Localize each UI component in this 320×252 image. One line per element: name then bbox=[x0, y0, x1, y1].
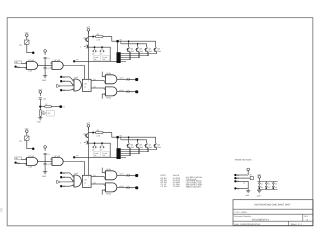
svg-text:TIMING VALUES: TIMING VALUES bbox=[186, 186, 202, 189]
wire U2A output to U3 bbox=[81, 84, 82, 86]
NAND gate UL2A bbox=[74, 175, 81, 187]
svg-text:2N4: 2N4 bbox=[157, 50, 160, 53]
capacitor C5 bbox=[39, 97, 42, 99]
wire from YL1 to node dot bbox=[27, 140, 33, 149]
drawing border frame bbox=[7, 18, 313, 226]
title block row lines bbox=[233, 208, 313, 210]
wire from Y1 to node dot bbox=[27, 44, 33, 53]
power VCC symbol VL2 bbox=[44, 146, 47, 149]
svg-text:IN1: IN1 bbox=[15, 61, 18, 64]
diode DL5 bbox=[92, 146, 94, 148]
resistor RL2 bbox=[94, 132, 96, 134]
svg-text:.1: .1 bbox=[80, 46, 82, 49]
wire diode row bbox=[88, 143, 110, 157]
svg-text:D5: D5 bbox=[268, 186, 270, 189]
resistor R9 bbox=[250, 176, 253, 179]
svg-text:A1: A1 bbox=[63, 172, 65, 175]
power VCC symbol VL3 bbox=[87, 125, 90, 128]
net label dot NL1 bbox=[73, 156, 75, 158]
spare diode pair 3 upper bbox=[272, 182, 274, 184]
transistor Q3 bbox=[145, 48, 147, 52]
svg-text:A2: A2 bbox=[63, 80, 65, 83]
wire RC node vertical bbox=[44, 155, 46, 164]
spare diode pair 2 lower bbox=[265, 185, 267, 186]
svg-text:R2: R2 bbox=[97, 33, 99, 36]
svg-text:D5: D5 bbox=[92, 149, 94, 152]
svg-text:IN2: IN2 bbox=[17, 66, 20, 69]
ground symbol G2 bbox=[38, 117, 42, 119]
svg-text:JP1: JP1 bbox=[47, 112, 50, 115]
svg-text:A3: A3 bbox=[63, 185, 65, 188]
svg-text:Q1: Q1 bbox=[83, 133, 85, 136]
terminal dot OUT1 bbox=[135, 78, 138, 81]
transistor Q2 bbox=[136, 48, 138, 52]
svg-text:Q2: Q2 bbox=[93, 86, 95, 89]
input port J1 bbox=[15, 61, 22, 64]
svg-text:VCC: VCC bbox=[38, 88, 43, 91]
input terminal dot D3 bbox=[60, 89, 62, 91]
resistor R7 bbox=[45, 106, 51, 108]
bus node dot BL bbox=[116, 136, 119, 139]
svg-text:C2: C2 bbox=[47, 153, 49, 156]
connector chevrons OUT2 bbox=[126, 90, 130, 93]
svg-text:U3: U3 bbox=[84, 83, 86, 86]
node dot A bbox=[32, 51, 35, 54]
junction dot row 2 bbox=[101, 142, 103, 144]
wire input 2 to UL2A bbox=[62, 177, 73, 181]
svg-text:VALUE: VALUE bbox=[173, 174, 180, 177]
diode DL6 bbox=[100, 146, 102, 148]
svg-text:Q1: Q1 bbox=[83, 37, 85, 40]
svg-text:.01: .01 bbox=[47, 67, 50, 70]
junction dot row 2 bbox=[101, 46, 103, 48]
svg-text:74F132: 74F132 bbox=[53, 155, 59, 158]
svg-text:48: 48 bbox=[94, 154, 96, 157]
connector bar PL1 bbox=[117, 139, 119, 149]
transistor QL4 bbox=[154, 144, 156, 148]
spare diode pair 3 lower bbox=[272, 185, 274, 186]
bus node dot B bbox=[116, 40, 119, 43]
ground symbol G4 bbox=[257, 190, 261, 192]
wire UL3 output 2 bbox=[91, 183, 105, 185]
NAND gate UL4B bbox=[105, 183, 117, 192]
svg-text:VCC: VCC bbox=[25, 128, 30, 131]
svg-text:D1: D1 bbox=[261, 182, 263, 185]
junction square dot bbox=[92, 132, 94, 134]
svg-text:Sheet: 1 / 1: Sheet: 1 / 1 bbox=[291, 223, 303, 226]
wire S4 to ground bbox=[237, 187, 249, 189]
crystal/cap component Y1 bbox=[24, 40, 29, 44]
svg-text:VCC: VCC bbox=[86, 26, 91, 29]
svg-text:VCC: VCC bbox=[86, 122, 91, 125]
bus drop wires bbox=[128, 137, 130, 143]
spare diode pair 1 lower bbox=[258, 185, 260, 186]
svg-text:R9: R9 bbox=[250, 174, 252, 177]
spare input dot S3 bbox=[234, 180, 236, 182]
bus wire 1 bbox=[119, 136, 156, 138]
capacitor CL2 bbox=[44, 152, 47, 154]
wire output OUT1 bbox=[117, 78, 136, 80]
power VCC symbol V3 bbox=[87, 29, 90, 32]
svg-text:2N4: 2N4 bbox=[157, 146, 160, 149]
svg-text:A2: A2 bbox=[63, 176, 65, 179]
resistor R8 bbox=[39, 110, 41, 116]
terminal dot OUT1 bbox=[135, 174, 138, 177]
transistor QL2 bbox=[136, 144, 138, 148]
svg-text:OUT1: OUT1 bbox=[119, 173, 124, 176]
svg-text:A1: A1 bbox=[63, 76, 65, 79]
wire U1B output bbox=[63, 66, 84, 80]
svg-text:48: 48 bbox=[103, 58, 105, 61]
svg-text:C9: C9 bbox=[19, 140, 21, 143]
svg-text:INTEGRATING ONE SHOT 9007: INTEGRATING ONE SHOT 9007 bbox=[255, 204, 292, 207]
wire R8 to ground bbox=[39, 116, 41, 117]
title block sheet cell divider bbox=[288, 221, 290, 225]
svg-text:.01: .01 bbox=[47, 163, 50, 166]
svg-text:Q1: Q1 bbox=[93, 78, 95, 81]
svg-text:D2: D2 bbox=[268, 182, 270, 185]
NAND gate U2A bbox=[74, 79, 81, 91]
svg-text:VCC: VCC bbox=[257, 173, 262, 176]
spare input dot S4 bbox=[234, 187, 236, 189]
wire R2 to bus node bbox=[103, 37, 117, 42]
bus wire 2 bbox=[121, 43, 147, 45]
svg-text:o: o bbox=[131, 188, 132, 190]
svg-text:GND: GND bbox=[42, 79, 47, 82]
title block frame bbox=[233, 200, 313, 226]
svg-text:OUT2: OUT2 bbox=[119, 185, 124, 188]
wire RC node vertical bbox=[44, 59, 46, 68]
transistor QL1 bbox=[127, 144, 129, 148]
input terminal dot D1 bbox=[60, 76, 62, 78]
svg-text:R7: R7 bbox=[45, 103, 47, 106]
connector chevrons OUT1 bbox=[126, 174, 130, 177]
svg-text:IN1: IN1 bbox=[15, 157, 18, 160]
svg-text:S3: S3 bbox=[237, 180, 239, 183]
wire U4A top input stub bbox=[102, 72, 104, 77]
svg-text:.1: .1 bbox=[80, 142, 82, 145]
svg-text:D6: D6 bbox=[100, 53, 102, 56]
NAND gate UL4A bbox=[105, 171, 117, 180]
wire output OUT2 bbox=[117, 187, 136, 189]
power VCC symbol V4 bbox=[39, 91, 42, 94]
terminal dot OUT2 bbox=[135, 90, 138, 93]
input port JL1 bbox=[15, 157, 22, 160]
svg-text:Document Number:: Document Number: bbox=[234, 215, 252, 218]
NAND gate U4A bbox=[105, 75, 117, 84]
capacitor C4 bbox=[84, 45, 86, 47]
ground symbol GL1 bbox=[43, 171, 47, 173]
svg-text:J1 HDR: J1 HDR bbox=[173, 185, 180, 188]
wire UL1B output bbox=[63, 162, 84, 176]
svg-text:14: 14 bbox=[84, 181, 86, 184]
svg-text:IN2: IN2 bbox=[17, 162, 20, 165]
NAND gate U1B bbox=[52, 62, 63, 70]
NAND gate U4B bbox=[105, 87, 117, 96]
terminal dot N3 bbox=[59, 105, 62, 108]
IC box UL3 bbox=[82, 175, 91, 187]
wire U3 output 2 bbox=[91, 87, 105, 89]
wire S1 to VCC bbox=[237, 174, 249, 176]
NAND gate UL1A bbox=[27, 158, 38, 166]
junction dot N2 bbox=[39, 106, 41, 108]
svg-text:N-ELEMENT-2-1: N-ELEMENT-2-1 bbox=[252, 218, 270, 221]
input terminal dot DL1 bbox=[60, 172, 62, 174]
svg-text:D3: D3 bbox=[275, 182, 277, 185]
svg-text:48: 48 bbox=[94, 58, 96, 61]
wire U3 output 1 bbox=[91, 80, 105, 82]
wire test point to connector bar bbox=[74, 156, 116, 158]
svg-text:D6: D6 bbox=[100, 149, 102, 152]
connector chevrons OUT1 bbox=[126, 78, 130, 81]
wire U4B bottom input stub bbox=[102, 94, 104, 99]
svg-text:Q2: Q2 bbox=[93, 182, 95, 185]
wire UL1A output to UL1B bbox=[38, 161, 52, 163]
diode D5 bbox=[92, 50, 94, 52]
svg-text:48: 48 bbox=[103, 154, 105, 157]
svg-text:C9: C9 bbox=[19, 44, 21, 47]
svg-text:D5: D5 bbox=[92, 53, 94, 56]
input terminal dot J2 bbox=[14, 65, 16, 67]
wire test point to connector bar bbox=[74, 60, 116, 62]
svg-text:VCC: VCC bbox=[25, 32, 30, 35]
wire output OUT2 bbox=[117, 91, 136, 93]
svg-text:C2 10u: C2 10u bbox=[161, 185, 167, 188]
input connector arrow KL1 bbox=[57, 180, 61, 183]
spare bus wire bbox=[257, 181, 277, 183]
power VCC symbol V6 bbox=[258, 176, 261, 179]
svg-text:U3: U3 bbox=[84, 179, 86, 182]
svg-text:74F00: 74F00 bbox=[106, 193, 111, 196]
svg-text:o: o bbox=[131, 79, 132, 81]
capacitor CL3 bbox=[44, 162, 47, 164]
bus drop wires bbox=[128, 41, 130, 47]
stray scan smudge at left margin bbox=[0, 208, 3, 212]
IC box U3 bbox=[82, 79, 91, 91]
bus wire 2 bbox=[121, 139, 147, 141]
svg-text:74F00: 74F00 bbox=[106, 97, 111, 100]
resistor R2 bbox=[94, 36, 96, 38]
svg-text:GND: GND bbox=[42, 175, 47, 178]
transistor QL0 bbox=[85, 134, 87, 138]
node dot AL bbox=[32, 147, 35, 150]
svg-text:S4: S4 bbox=[237, 187, 239, 190]
capacitor CL4 bbox=[84, 141, 86, 143]
transistor Q4 bbox=[154, 48, 156, 52]
junction dot row 1 bbox=[94, 46, 96, 48]
svg-text:74F132: 74F132 bbox=[28, 59, 34, 62]
crystal/cap component YL1 bbox=[24, 136, 29, 140]
svg-text:Date: 11/05/2003 08:32:54: Date: 11/05/2003 08:32:54 bbox=[234, 223, 261, 226]
transistor Q1 bbox=[127, 48, 129, 52]
spare input dot S2 bbox=[234, 177, 236, 179]
wire diode row bbox=[88, 47, 110, 61]
spare diode pair 2 upper bbox=[265, 182, 267, 184]
label box JP1 bbox=[46, 110, 54, 116]
wire input 1 to U2A bbox=[62, 77, 73, 81]
wire C5 to node bbox=[39, 99, 41, 110]
svg-text:o: o bbox=[131, 175, 132, 177]
power VCC symbol V1 bbox=[26, 34, 29, 37]
svg-text:Q1: Q1 bbox=[93, 174, 95, 177]
terminal dot OUT2 bbox=[135, 186, 138, 189]
svg-text:S1: S1 bbox=[237, 174, 239, 177]
wire UL3 output 1 bbox=[91, 176, 105, 178]
svg-text:o: o bbox=[131, 92, 132, 94]
svg-text:14: 14 bbox=[84, 85, 86, 88]
wire output OUT1 bbox=[117, 174, 136, 176]
junction dot row 1 bbox=[94, 142, 96, 144]
wire input 3 to U2A bbox=[62, 88, 73, 91]
power VCC symbol V2 bbox=[44, 50, 47, 53]
transistor Q0 bbox=[85, 38, 87, 42]
junction square dot bbox=[92, 36, 94, 38]
svg-text:S2: S2 bbox=[237, 177, 239, 180]
wire UL2A output to UL3 bbox=[81, 180, 82, 182]
input connector arrow K1 bbox=[57, 84, 61, 87]
svg-text:OUT1: OUT1 bbox=[119, 77, 124, 80]
wire VCC trunk bbox=[87, 127, 89, 175]
spare diode pair 1 upper bbox=[258, 182, 260, 184]
NAND gate UL1B bbox=[52, 158, 63, 166]
svg-text:OUT2: OUT2 bbox=[119, 89, 124, 92]
spare bottom rail wire bbox=[257, 188, 277, 190]
power VCC symbol V5 bbox=[247, 168, 250, 171]
svg-text:74F00: 74F00 bbox=[106, 72, 111, 75]
svg-text:T.I.T.L: HIGH: T.I.T.L: HIGH bbox=[234, 211, 247, 214]
wire RL2 to bus node bbox=[103, 133, 117, 138]
svg-text:C2: C2 bbox=[47, 57, 49, 60]
wire node to resistor R7 bbox=[40, 106, 45, 108]
transistor QL3 bbox=[145, 144, 147, 148]
wire UL4B bottom input stub bbox=[102, 190, 104, 195]
wire input 3 to UL2A bbox=[62, 184, 73, 187]
spare input dot S1 bbox=[234, 174, 236, 176]
power VCC symbol VL1 bbox=[26, 130, 29, 133]
wire VCC trunk bbox=[87, 31, 89, 79]
svg-text:D4: D4 bbox=[261, 186, 263, 189]
bus wire 1 bbox=[119, 40, 156, 42]
wire input 1 to UL2A bbox=[62, 173, 73, 177]
wire S3 bbox=[237, 181, 249, 188]
svg-text:GND: GND bbox=[37, 120, 42, 123]
net label dot N1 bbox=[73, 60, 75, 62]
ground symbol G3 bbox=[246, 189, 250, 191]
svg-text:74F132: 74F132 bbox=[53, 59, 59, 62]
svg-text:10u: 10u bbox=[43, 98, 46, 101]
capacitor C3 bbox=[44, 66, 47, 68]
bar rail wires bbox=[121, 53, 157, 55]
svg-text:74F00: 74F00 bbox=[106, 168, 111, 171]
svg-text:R8: R8 bbox=[42, 110, 44, 113]
svg-text:PART: PART bbox=[161, 174, 167, 177]
wire UL4A top input stub bbox=[102, 168, 104, 173]
capacitor C2 bbox=[44, 56, 47, 58]
diode D6 bbox=[100, 50, 102, 52]
svg-text:SPARE SECTIONS: SPARE SECTIONS bbox=[235, 159, 253, 162]
input terminal dot JL2 bbox=[14, 161, 16, 163]
svg-text:74F132: 74F132 bbox=[28, 155, 34, 158]
svg-text:D6: D6 bbox=[275, 186, 277, 189]
svg-text:R2: R2 bbox=[97, 129, 99, 132]
wire S2 to R9 bbox=[237, 177, 251, 179]
connector chevrons OUT2 bbox=[126, 186, 130, 189]
title block rev cell divider bbox=[302, 214, 304, 221]
input terminal dot DL2 bbox=[60, 176, 62, 178]
input terminal dot DL3 bbox=[60, 185, 62, 187]
NAND gate U1A bbox=[27, 62, 38, 70]
svg-text:A3: A3 bbox=[63, 89, 65, 92]
bar rail wires bbox=[121, 149, 157, 151]
connector bar P1 bbox=[117, 43, 119, 53]
wire U1A output to U1B bbox=[38, 65, 52, 67]
ground symbol G1 bbox=[43, 75, 47, 77]
wire input 2 to U2A bbox=[62, 81, 73, 85]
input terminal dot D2 bbox=[60, 80, 62, 82]
